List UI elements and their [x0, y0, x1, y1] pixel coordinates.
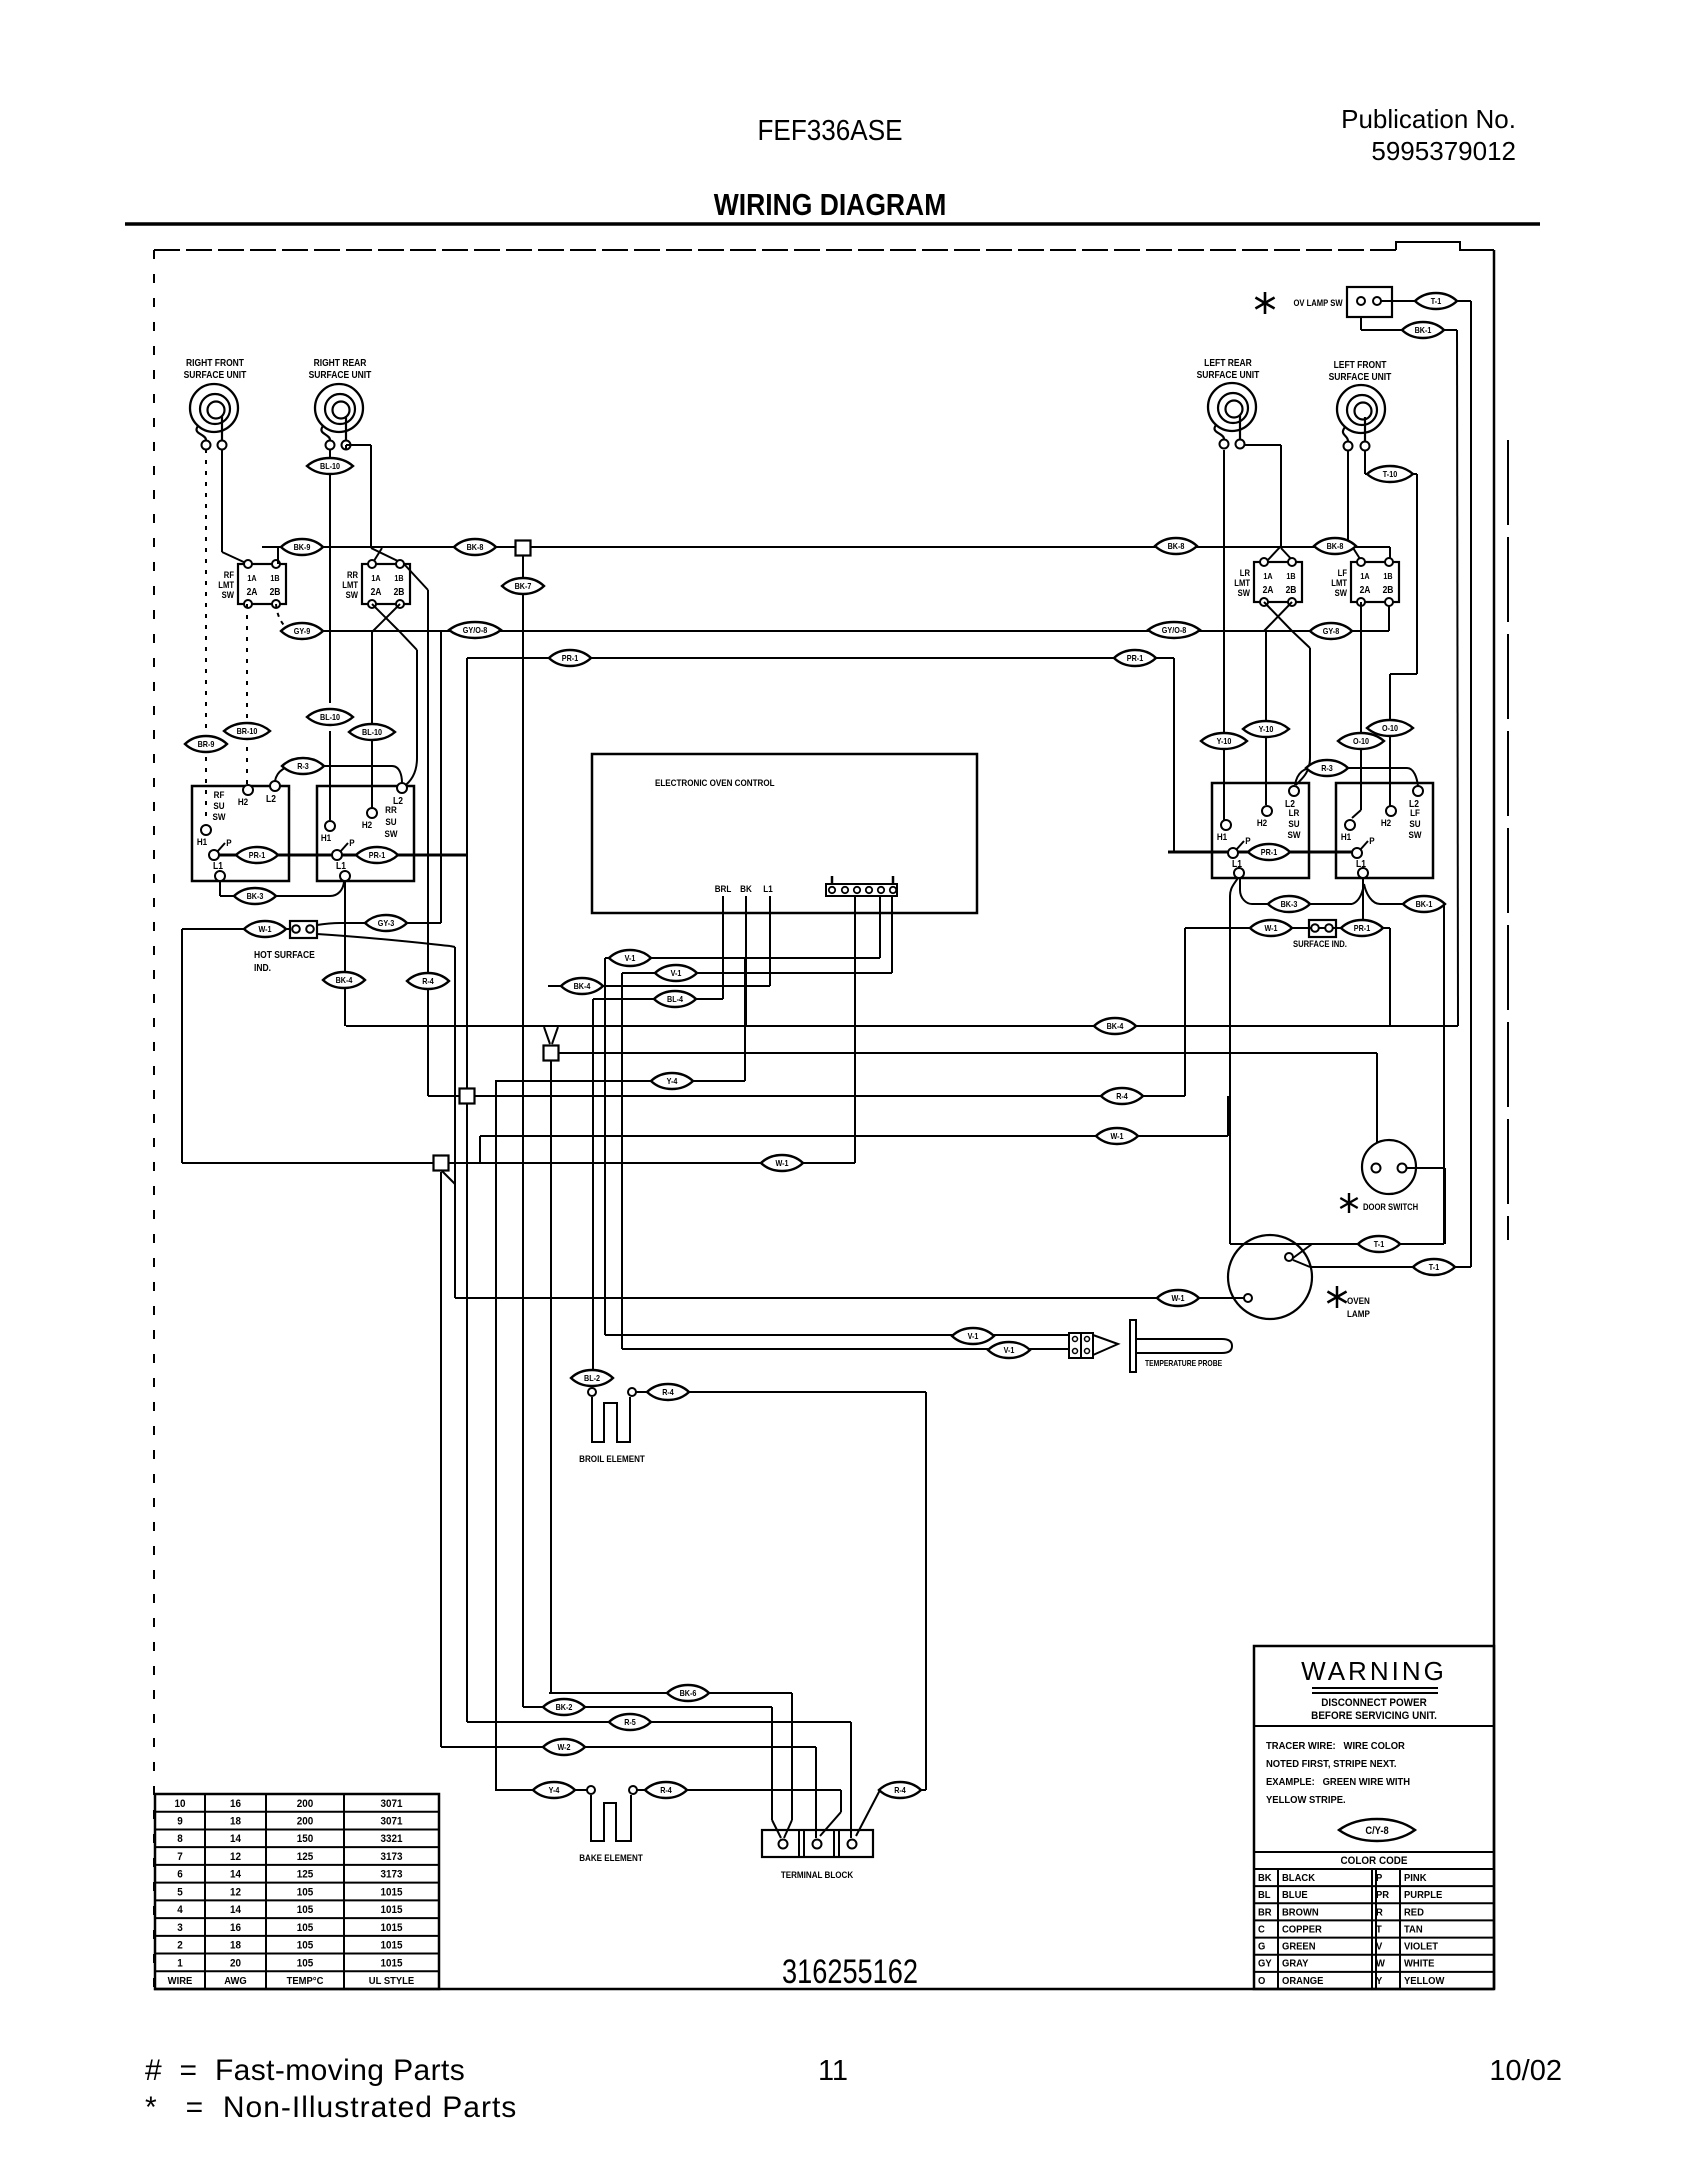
svg-text:BK-3: BK-3 — [247, 892, 264, 902]
svg-text:BR: BR — [1258, 1907, 1272, 1919]
svg-text:H2: H2 — [362, 819, 372, 830]
svg-text:BK-1: BK-1 — [1416, 900, 1433, 910]
svg-text:G: G — [1258, 1941, 1266, 1953]
svg-text:PR-1: PR-1 — [1354, 924, 1371, 934]
svg-text:H1: H1 — [197, 836, 207, 847]
svg-text:PR-1: PR-1 — [562, 654, 579, 664]
svg-text:1A: 1A — [1263, 571, 1273, 581]
svg-text:1: 1 — [177, 1958, 183, 1970]
svg-text:1A: 1A — [247, 573, 257, 583]
svg-text:BK-1: BK-1 — [1415, 326, 1432, 336]
svg-text:PR-1: PR-1 — [369, 851, 386, 861]
svg-text:L1: L1 — [336, 860, 346, 871]
svg-text:RED: RED — [1404, 1907, 1424, 1919]
svg-text:125: 125 — [297, 1852, 314, 1864]
svg-text:9: 9 — [177, 1816, 183, 1828]
svg-text:SU: SU — [213, 800, 224, 811]
svg-text:R-3: R-3 — [297, 762, 309, 772]
svg-text:GY: GY — [1258, 1958, 1272, 1970]
svg-text:O-10: O-10 — [1353, 737, 1370, 747]
svg-text:SW: SW — [1288, 829, 1302, 840]
svg-text:GY-8: GY-8 — [1323, 627, 1340, 637]
svg-text:W-1: W-1 — [1171, 1294, 1185, 1304]
svg-text:7: 7 — [177, 1852, 183, 1864]
svg-text:BL-4: BL-4 — [667, 995, 684, 1005]
svg-text:1B: 1B — [1383, 571, 1393, 581]
svg-text:18: 18 — [230, 1940, 241, 1952]
svg-text:BL: BL — [1258, 1890, 1271, 1902]
svg-text:2B: 2B — [1383, 584, 1394, 595]
svg-text:BRL: BRL — [715, 883, 732, 894]
svg-text:BROIL ELEMENT: BROIL ELEMENT — [579, 1453, 645, 1464]
svg-text:1015: 1015 — [380, 1905, 402, 1917]
svg-text:LR: LR — [1289, 807, 1300, 818]
svg-text:105: 105 — [297, 1940, 314, 1952]
svg-text:3071: 3071 — [380, 1816, 402, 1828]
svg-text:LF: LF — [1410, 807, 1420, 818]
svg-text:BK-3: BK-3 — [1281, 900, 1298, 910]
svg-text:1B: 1B — [1286, 571, 1296, 581]
svg-text:BEFORE SERVICING UNIT.: BEFORE SERVICING UNIT. — [1311, 1711, 1437, 1723]
svg-text:BROWN: BROWN — [1282, 1907, 1319, 1919]
svg-text:SURFACE UNIT: SURFACE UNIT — [1329, 371, 1392, 382]
svg-text:BK-8: BK-8 — [467, 543, 484, 553]
svg-text:11: 11 — [818, 2055, 848, 2087]
svg-text:H1: H1 — [1341, 831, 1351, 842]
svg-text:H2: H2 — [1381, 817, 1391, 828]
svg-text:316255162: 316255162 — [782, 1952, 918, 1991]
svg-text:LAMP: LAMP — [1347, 1308, 1370, 1319]
svg-text:SW: SW — [1238, 587, 1250, 598]
svg-text:10/02: 10/02 — [1489, 2055, 1562, 2087]
svg-text:P: P — [1369, 835, 1374, 846]
svg-text:H2: H2 — [238, 796, 248, 807]
svg-text:SURFACE UNIT: SURFACE UNIT — [1197, 369, 1260, 380]
svg-text:T-1: T-1 — [1374, 1240, 1385, 1250]
svg-text:BR-9: BR-9 — [198, 740, 215, 750]
svg-text:DISCONNECT POWER: DISCONNECT POWER — [1321, 1698, 1427, 1710]
svg-text:BK-6: BK-6 — [680, 1689, 697, 1699]
svg-text:T-1: T-1 — [1431, 297, 1442, 307]
svg-text:SURFACE UNIT: SURFACE UNIT — [309, 369, 372, 380]
svg-text:W-1: W-1 — [258, 925, 272, 935]
svg-text:2B: 2B — [1286, 584, 1297, 595]
svg-text:1015: 1015 — [380, 1887, 402, 1899]
svg-text:RF: RF — [214, 789, 225, 800]
svg-text:2B: 2B — [394, 586, 405, 597]
svg-text:BK-8: BK-8 — [1168, 542, 1185, 552]
svg-text:C/Y-8: C/Y-8 — [1365, 1825, 1389, 1837]
svg-text:V-1: V-1 — [625, 954, 636, 964]
svg-text:UL STYLE: UL STYLE — [369, 1976, 415, 1988]
svg-text:Y-4: Y-4 — [667, 1077, 678, 1087]
svg-text:6: 6 — [177, 1869, 183, 1881]
svg-text:2A: 2A — [1360, 584, 1371, 595]
svg-text:P: P — [1245, 835, 1250, 846]
svg-text:W-1: W-1 — [1264, 924, 1278, 934]
svg-text:14: 14 — [230, 1834, 241, 1846]
svg-text:ELECTRONIC OVEN CONTROL: ELECTRONIC OVEN CONTROL — [655, 777, 775, 788]
svg-text:125: 125 — [297, 1869, 314, 1881]
svg-text:PINK: PINK — [1404, 1873, 1427, 1885]
svg-text:BR-10: BR-10 — [237, 727, 258, 737]
svg-text:P: P — [349, 837, 354, 848]
svg-text:YELLOW: YELLOW — [1404, 1975, 1445, 1987]
svg-text:16: 16 — [230, 1798, 241, 1810]
svg-text:2: 2 — [177, 1940, 183, 1952]
svg-text:105: 105 — [297, 1887, 314, 1899]
svg-text:P: P — [1376, 1873, 1383, 1885]
svg-text:SURFACE UNIT: SURFACE UNIT — [184, 369, 247, 380]
svg-text:150: 150 — [297, 1834, 314, 1846]
svg-text:SW: SW — [222, 589, 234, 600]
svg-text:3321: 3321 — [380, 1834, 402, 1846]
svg-text:Y-10: Y-10 — [1217, 737, 1232, 747]
svg-text:R: R — [1376, 1907, 1383, 1919]
svg-text:PURPLE: PURPLE — [1404, 1890, 1443, 1902]
svg-text:SU: SU — [385, 816, 396, 827]
svg-text:LEFT FRONT: LEFT FRONT — [1334, 359, 1387, 370]
svg-text:V-1: V-1 — [1004, 1346, 1015, 1356]
svg-text:BK-4: BK-4 — [574, 982, 591, 992]
svg-text:ORANGE: ORANGE — [1282, 1975, 1324, 1987]
svg-text:12: 12 — [230, 1852, 241, 1864]
svg-text:GY/O-8: GY/O-8 — [463, 626, 488, 636]
svg-text:SW: SW — [385, 828, 399, 839]
svg-text:DOOR SWITCH: DOOR SWITCH — [1363, 1201, 1418, 1212]
svg-text:BLUE: BLUE — [1282, 1890, 1308, 1902]
svg-text:COLOR CODE: COLOR CODE — [1340, 1856, 1407, 1868]
svg-text:WHITE: WHITE — [1404, 1958, 1435, 1970]
svg-text:TEMP°C: TEMP°C — [287, 1976, 324, 1988]
svg-text:P: P — [226, 837, 231, 848]
svg-text:Publication No.: Publication No. — [1341, 104, 1516, 134]
svg-text:8: 8 — [177, 1834, 183, 1846]
svg-text:5: 5 — [177, 1887, 183, 1899]
svg-text:PR-1: PR-1 — [249, 851, 266, 861]
svg-text:V-1: V-1 — [671, 969, 682, 979]
svg-text:W: W — [1376, 1958, 1385, 1970]
svg-text:R-5: R-5 — [624, 1718, 636, 1728]
svg-text:L1: L1 — [763, 883, 773, 894]
svg-text:# = Fast-moving Parts: # = Fast-moving Parts — [145, 2054, 465, 2087]
svg-text:1015: 1015 — [380, 1922, 402, 1934]
svg-text:RIGHT REAR: RIGHT REAR — [314, 357, 367, 368]
svg-text:AWG: AWG — [224, 1976, 247, 1988]
svg-text:3071: 3071 — [380, 1798, 402, 1810]
svg-text:12: 12 — [230, 1887, 241, 1899]
svg-text:Y-10: Y-10 — [1259, 725, 1274, 735]
svg-text:14: 14 — [230, 1905, 241, 1917]
svg-text:OVEN: OVEN — [1347, 1295, 1370, 1306]
svg-text:IND.: IND. — [254, 962, 271, 973]
svg-text:LEFT REAR: LEFT REAR — [1204, 357, 1252, 368]
svg-text:EXAMPLE: GREEN WIRE WITH: EXAMPLE: GREEN WIRE WITH — [1266, 1777, 1410, 1789]
svg-text:FEF336ASE: FEF336ASE — [757, 114, 902, 147]
svg-text:TEMPERATURE PROBE: TEMPERATURE PROBE — [1145, 1358, 1222, 1368]
svg-text:105: 105 — [297, 1958, 314, 1970]
svg-text:BL-10: BL-10 — [320, 462, 341, 472]
svg-text:4: 4 — [177, 1905, 183, 1917]
svg-text:R-4: R-4 — [660, 1786, 672, 1796]
svg-text:R-4: R-4 — [422, 977, 434, 987]
svg-text:R-4: R-4 — [1116, 1092, 1128, 1102]
svg-text:14: 14 — [230, 1869, 241, 1881]
svg-text:L1: L1 — [1232, 858, 1242, 869]
svg-text:3173: 3173 — [380, 1852, 402, 1864]
svg-text:5995379012: 5995379012 — [1371, 136, 1516, 166]
svg-text:2A: 2A — [371, 586, 382, 597]
svg-text:SW: SW — [1335, 587, 1347, 598]
svg-text:COPPER: COPPER — [1282, 1924, 1322, 1936]
svg-text:SURFACE IND.: SURFACE IND. — [1293, 938, 1347, 949]
svg-text:L1: L1 — [1356, 858, 1366, 869]
svg-text:TERMINAL BLOCK: TERMINAL BLOCK — [781, 1869, 854, 1880]
svg-text:10: 10 — [174, 1798, 185, 1810]
svg-text:PR-1: PR-1 — [1261, 848, 1278, 858]
svg-text:GY-3: GY-3 — [378, 919, 395, 929]
svg-text:BK-4: BK-4 — [1107, 1022, 1124, 1032]
svg-text:200: 200 — [297, 1798, 314, 1810]
svg-text:20: 20 — [230, 1958, 241, 1970]
svg-text:3: 3 — [177, 1922, 183, 1934]
svg-text:R-3: R-3 — [1321, 764, 1333, 774]
svg-text:1B: 1B — [394, 573, 404, 583]
svg-text:Y: Y — [1376, 1975, 1383, 1987]
svg-text:BK-4: BK-4 — [336, 976, 353, 986]
svg-text:V: V — [1376, 1941, 1383, 1953]
svg-text:* = Non-Illustrated Parts: * = Non-Illustrated Parts — [145, 2091, 517, 2124]
svg-text:BLACK: BLACK — [1282, 1873, 1316, 1885]
svg-text:BL-10: BL-10 — [362, 728, 383, 738]
svg-text:H1: H1 — [1217, 831, 1227, 842]
svg-text:BK-9: BK-9 — [294, 543, 311, 553]
svg-text:O: O — [1258, 1975, 1266, 1987]
svg-text:GY-9: GY-9 — [294, 627, 311, 637]
svg-text:105: 105 — [297, 1905, 314, 1917]
svg-text:BK: BK — [1258, 1873, 1272, 1885]
svg-text:V-1: V-1 — [968, 1332, 979, 1342]
svg-text:L1: L1 — [213, 860, 223, 871]
svg-text:VIOLET: VIOLET — [1404, 1941, 1438, 1953]
svg-text:TAN: TAN — [1404, 1924, 1423, 1936]
svg-text:WARNING: WARNING — [1301, 1656, 1447, 1686]
svg-text:GRAY: GRAY — [1282, 1958, 1309, 1970]
svg-text:BK-8: BK-8 — [1327, 542, 1344, 552]
svg-text:105: 105 — [297, 1922, 314, 1934]
svg-text:RR: RR — [385, 804, 397, 815]
svg-text:BK-7: BK-7 — [515, 582, 532, 592]
svg-text:200: 200 — [297, 1816, 314, 1828]
svg-text:R-4: R-4 — [894, 1786, 906, 1796]
svg-text:W-1: W-1 — [775, 1159, 789, 1169]
svg-text:GREEN: GREEN — [1282, 1941, 1316, 1953]
svg-text:L2: L2 — [266, 793, 276, 804]
svg-text:SW: SW — [1409, 829, 1423, 840]
svg-text:1015: 1015 — [380, 1940, 402, 1952]
svg-text:18: 18 — [230, 1816, 241, 1828]
svg-text:2A: 2A — [247, 586, 258, 597]
svg-text:T-1: T-1 — [1429, 1263, 1440, 1273]
svg-text:Y-4: Y-4 — [549, 1786, 560, 1796]
svg-text:T: T — [1376, 1924, 1382, 1936]
svg-text:RIGHT FRONT: RIGHT FRONT — [186, 357, 244, 368]
svg-text:PR: PR — [1376, 1890, 1389, 1902]
svg-text:BK-2: BK-2 — [556, 1703, 573, 1713]
svg-text:1A: 1A — [371, 573, 381, 583]
svg-text:R-4: R-4 — [662, 1388, 674, 1398]
svg-text:WIRING DIAGRAM: WIRING DIAGRAM — [714, 188, 947, 222]
svg-text:C: C — [1258, 1924, 1265, 1936]
svg-text:SW: SW — [213, 811, 227, 822]
svg-text:NOTED FIRST, STRIPE NEXT.: NOTED FIRST, STRIPE NEXT. — [1266, 1759, 1397, 1771]
svg-text:1A: 1A — [1360, 571, 1370, 581]
svg-text:SU: SU — [1409, 818, 1420, 829]
svg-text:1015: 1015 — [380, 1958, 402, 1970]
svg-text:TRACER WIRE: WIRE COLOR: TRACER WIRE: WIRE COLOR — [1266, 1741, 1405, 1753]
svg-text:BL-2: BL-2 — [584, 1374, 601, 1384]
svg-text:PR-1: PR-1 — [1127, 654, 1144, 664]
svg-text:HOT SURFACE: HOT SURFACE — [254, 949, 315, 960]
svg-text:1B: 1B — [270, 573, 280, 583]
svg-text:H1: H1 — [321, 832, 331, 843]
svg-text:BAKE ELEMENT: BAKE ELEMENT — [579, 1852, 643, 1863]
svg-text:GY/O-8: GY/O-8 — [1162, 626, 1187, 636]
svg-text:WIRE: WIRE — [168, 1976, 193, 1988]
svg-text:2B: 2B — [270, 586, 281, 597]
svg-text:T-10: T-10 — [1383, 470, 1398, 480]
svg-text:SU: SU — [1288, 818, 1299, 829]
svg-text:SW: SW — [346, 589, 358, 600]
svg-text:O-10: O-10 — [1382, 724, 1399, 734]
svg-text:3173: 3173 — [380, 1869, 402, 1881]
svg-text:BK: BK — [740, 883, 752, 894]
svg-text:W-2: W-2 — [557, 1743, 571, 1753]
svg-text:2A: 2A — [1263, 584, 1274, 595]
svg-text:YELLOW STRIPE.: YELLOW STRIPE. — [1266, 1795, 1346, 1807]
svg-text:16: 16 — [230, 1922, 241, 1934]
svg-text:OV LAMP SW: OV LAMP SW — [1293, 297, 1342, 308]
svg-text:BL-10: BL-10 — [320, 713, 341, 723]
svg-text:W-1: W-1 — [1110, 1132, 1124, 1142]
svg-text:H2: H2 — [1257, 817, 1267, 828]
